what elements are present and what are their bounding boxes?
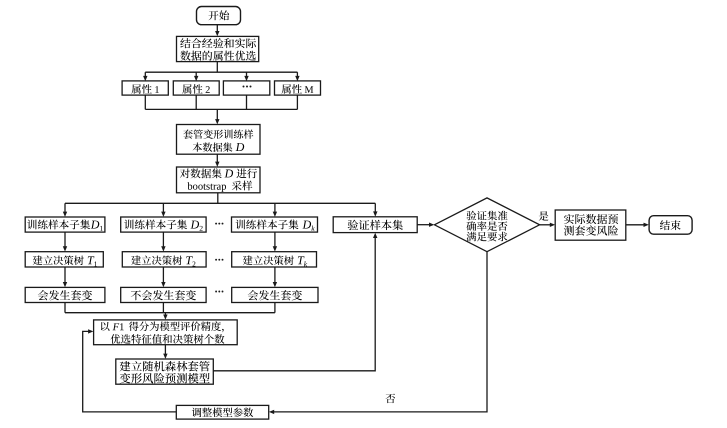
- box 建立决策树Tk: [232, 252, 317, 267]
- connector attribute row to training set: [145, 95, 297, 124]
- ellipsis between outcome boxes: [215, 291, 223, 293]
- ellipsis between T2 and Tk: [215, 259, 223, 261]
- process 建立随机森林套管变形风险预测模型: [116, 359, 214, 384]
- process 调整模型参数: [176, 405, 268, 419]
- process 结合经验和实际数据的属性优选: [177, 36, 259, 61]
- process 对数据集D进行bootstrap采样: [177, 167, 261, 193]
- arrow vset->diamond: [417, 223, 434, 227]
- connector model->validation set: [213, 233, 377, 371]
- box 训练样本子集Dk: [232, 217, 318, 232]
- terminal 结束 (end): [649, 216, 692, 235]
- box 训练样本子集D2: [121, 217, 206, 232]
- box 属性M: [275, 81, 321, 95]
- box ellipsis: [223, 81, 269, 95]
- box 不会发生套变: [121, 287, 206, 302]
- box 训练样本子集D1: [25, 217, 105, 232]
- arrow diamond->predict: [540, 223, 556, 227]
- connector diamond-no->adjust: [269, 252, 487, 414]
- connector outcomes to F1 box: [65, 303, 275, 320]
- connector bootstrap to subsets and validation set: [63, 193, 378, 217]
- box 属性1: [122, 81, 168, 95]
- box 会发生套变(1): [25, 287, 105, 302]
- box 会发生套变(k): [232, 287, 318, 302]
- process 实际数据预测套变风险: [555, 210, 626, 240]
- connector attr-select to attribute row: [143, 62, 300, 82]
- connector adjust->F1 feedback: [83, 329, 177, 412]
- decision 验证集准确率是否满足要求: [434, 198, 539, 252]
- process 套管变形训练样本数据集D: [177, 125, 261, 155]
- arrow predict->end: [626, 223, 649, 227]
- process 以F1得分为模型评价精度优选特征值和决策树个数: [94, 320, 238, 345]
- ellipsis between D2 and Dk: [215, 223, 223, 225]
- arrow F1box->model: [163, 345, 167, 359]
- box 属性2: [173, 81, 219, 95]
- box 验证样本集: [333, 217, 417, 233]
- arrow trainingset->bootstrap: [215, 154, 219, 167]
- box 建立决策树T2: [122, 252, 206, 267]
- arrows trees->outcomes: [63, 267, 277, 287]
- box 建立决策树T1: [25, 252, 103, 267]
- label 否: [386, 394, 396, 404]
- arrows subsets->trees: [63, 232, 277, 251]
- label 是: [539, 211, 549, 220]
- arrow start->attr-select: [215, 25, 219, 37]
- terminal 开始 (start): [197, 7, 241, 25]
